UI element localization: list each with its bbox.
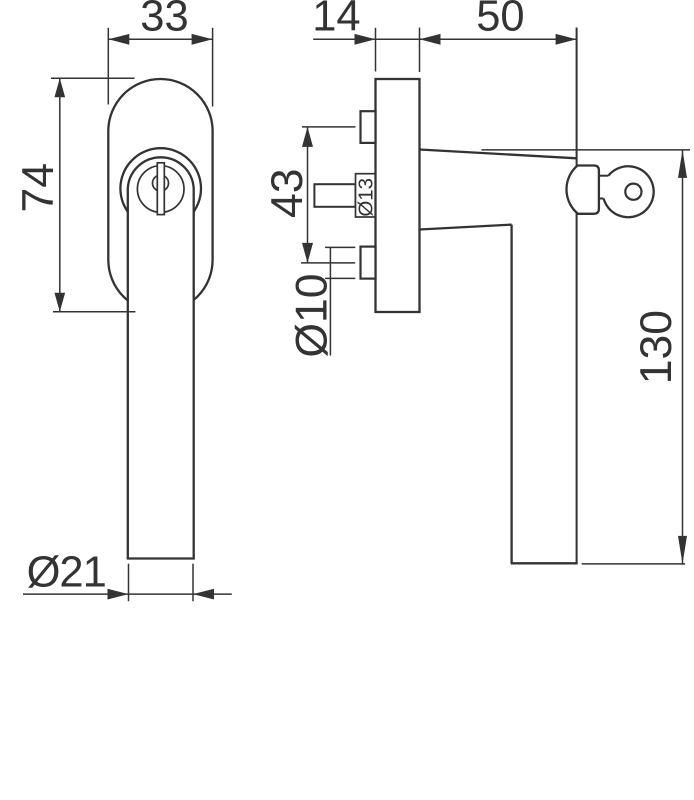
screw boss bottom bbox=[361, 247, 376, 279]
dimension 43: dimension line with arrows bbox=[307, 127, 309, 263]
cylinder face circle bbox=[137, 166, 184, 213]
dimension 43: extension line top bbox=[302, 126, 356, 128]
handle grip front view (white over rosette bottom) bbox=[128, 157, 194, 558]
dimension Ø10: tick top bbox=[325, 246, 355, 248]
svg-text:14: 14 bbox=[312, 0, 360, 41]
spindle square shaft bbox=[314, 184, 355, 207]
dimension 130: extension line bottom bbox=[582, 563, 685, 565]
keyway circle bbox=[153, 175, 169, 191]
rosette plate side view bbox=[376, 79, 420, 312]
screw boss top bbox=[361, 111, 376, 143]
grip left edge side view bbox=[510, 225, 512, 564]
svg-text:43: 43 bbox=[263, 169, 312, 219]
dimension 74: extension line bottom bbox=[53, 311, 136, 313]
dimension 14: extension line left bbox=[375, 28, 377, 72]
svg-text:Ø10: Ø10 bbox=[287, 273, 336, 357]
dimension Ø21: extension line left bbox=[128, 564, 130, 602]
key head circle with keyway gap bbox=[604, 166, 654, 217]
handle grip right edge / 50 extension line bbox=[576, 28, 578, 564]
svg-text:Ø21: Ø21 bbox=[27, 548, 106, 596]
dimension 33: dimension line with arrows bbox=[108, 38, 212, 40]
dimension 43: extension line bottom bbox=[301, 262, 355, 264]
outer ring circle of lock cylinder bbox=[120, 148, 201, 229]
dimension Ø21: extension line right bbox=[192, 564, 194, 602]
dimension 74: dimension line with arrows bbox=[59, 78, 61, 311]
dimension 130: extension line top bbox=[482, 149, 691, 151]
svg-text:50: 50 bbox=[476, 0, 524, 41]
dimension 74: extension line top bbox=[51, 77, 135, 79]
key neck bottom line bbox=[596, 198, 604, 200]
Ø13 label box bbox=[356, 174, 376, 217]
svg-text:130: 130 bbox=[632, 310, 681, 384]
neck bottom edge bbox=[420, 225, 512, 230]
key ring hole bbox=[625, 184, 641, 200]
cylinder body side view bbox=[566, 166, 598, 214]
grip bottom side view bbox=[511, 562, 578, 564]
dimension 33: extension line right bbox=[212, 28, 214, 107]
dimension Ø10: leader vertical line bbox=[329, 248, 331, 356]
svg-text:74: 74 bbox=[14, 163, 63, 213]
svg-text:Ø13: Ø13 bbox=[355, 178, 378, 217]
dimension Ø10: tick bottom bbox=[325, 277, 355, 279]
dimension 33: extension line left bbox=[107, 28, 109, 105]
key slot bar bbox=[157, 163, 164, 215]
dimension 50: line with arrows bbox=[420, 38, 577, 40]
key neck top line bbox=[596, 175, 608, 177]
dimension 14/50 shared extension line bbox=[419, 28, 421, 73]
dimension 130: dimension line with arrows bbox=[682, 150, 684, 564]
svg-text:33: 33 bbox=[140, 0, 188, 40]
dimension Ø21: dimension line with outside arrows bbox=[23, 593, 232, 595]
dimension 14: line with outside arrow bbox=[313, 38, 419, 40]
rosette (oval escutcheon plate) bbox=[108, 79, 212, 312]
neck top edge bbox=[420, 150, 577, 159]
